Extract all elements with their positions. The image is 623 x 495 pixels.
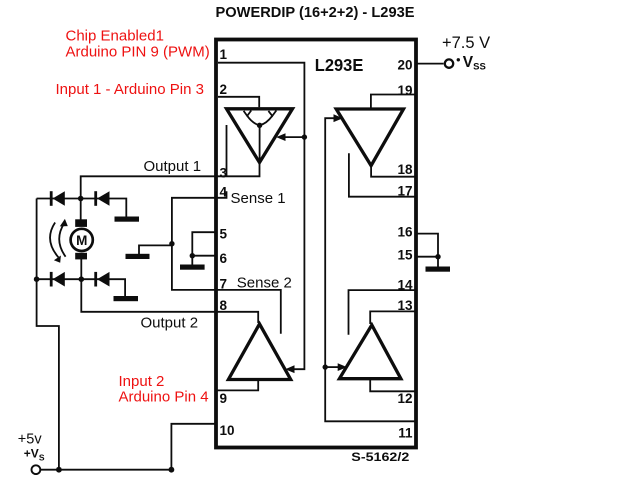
motor rotation arrow bottom bbox=[54, 256, 61, 263]
diode row 1 wire bbox=[37, 199, 127, 217]
wire input1 pin2 to A1 bbox=[218, 97, 259, 107]
junction enable1 bbox=[302, 134, 307, 139]
wire sense2 pin7 internal bbox=[216, 290, 281, 334]
svg-text:16: 16 bbox=[397, 225, 413, 240]
svg-text:5: 5 bbox=[220, 227, 228, 242]
svg-text:15: 15 bbox=[397, 248, 413, 263]
wire output2 pin8 to A2 bbox=[216, 312, 258, 323]
wire pin15 ground stem bbox=[437, 257, 439, 267]
wire input2 pin9 to A2 bbox=[216, 380, 258, 391]
wire output1 A1 to pin3 bbox=[216, 161, 260, 176]
svg-text:Chip Enabled1: Chip Enabled1 bbox=[66, 28, 164, 45]
wire output4 A4 to pin18 bbox=[371, 164, 416, 177]
svg-text:Sense 1: Sense 1 bbox=[231, 190, 286, 207]
wire pin6 ground stem bbox=[191, 256, 193, 265]
svg-text:1: 1 bbox=[220, 47, 228, 62]
wire left Vs rail bbox=[37, 199, 59, 470]
svg-text:+5v: +5v bbox=[18, 432, 43, 448]
diode D4 bbox=[94, 272, 109, 287]
svg-text:+7.5 V: +7.5 V bbox=[442, 34, 490, 52]
ground G3 sense bbox=[126, 254, 150, 259]
svg-text:20: 20 bbox=[397, 58, 412, 73]
svg-text:+VS: +VS bbox=[24, 447, 45, 463]
label +Vss bbox=[457, 58, 460, 61]
junction motor bottom bbox=[79, 276, 85, 282]
svg-text:Input 1 - Arduino Pin 3: Input 1 - Arduino Pin 3 bbox=[56, 81, 204, 98]
wire output1 external bbox=[81, 176, 216, 198]
svg-text:11: 11 bbox=[398, 426, 413, 441]
arrow into A3 bbox=[338, 363, 347, 371]
motor M body bbox=[71, 229, 93, 251]
wire sense to ground bbox=[139, 245, 172, 254]
wire bottom Vs to pin10 bbox=[41, 424, 216, 470]
junction pin10 riser bbox=[169, 467, 175, 473]
svg-text:VSS: VSS bbox=[463, 54, 486, 73]
amplifier A3 triangle bbox=[339, 325, 401, 379]
arrow into A2 bbox=[285, 365, 294, 373]
arrow into A4 bbox=[334, 114, 343, 122]
svg-text:Arduino Pin 4: Arduino Pin 4 bbox=[119, 389, 209, 406]
diode D1 bbox=[50, 191, 65, 206]
svg-text:18: 18 bbox=[397, 162, 413, 177]
svg-text:8: 8 bbox=[220, 298, 228, 313]
motor M terminal bottom bbox=[75, 253, 87, 260]
wire enable1 branch to A1 bbox=[285, 136, 304, 138]
wire motor bottom lead bbox=[80, 259, 82, 279]
junction motor top bbox=[78, 196, 84, 202]
diode D3 bbox=[50, 272, 65, 287]
junction pin6 ground bbox=[190, 253, 195, 258]
diode D2 bbox=[94, 191, 109, 206]
wire pin4 internal stub bbox=[216, 191, 227, 198]
wire enable2 rail bbox=[325, 118, 416, 421]
junction rail bottom row bbox=[34, 276, 40, 282]
motor rotation arrow top bbox=[60, 219, 68, 227]
svg-text:12: 12 bbox=[397, 391, 412, 406]
svg-text:19: 19 bbox=[397, 83, 412, 98]
motor rotation inner arc bbox=[59, 223, 65, 257]
IC U1 body L293E bbox=[216, 40, 416, 448]
svg-text:9: 9 bbox=[220, 391, 228, 406]
wire pins 5-6 external bbox=[192, 232, 216, 256]
amplifier A1 triangle bbox=[227, 109, 293, 163]
wire enable2 branch to A3 bbox=[325, 366, 338, 368]
wire input3 pin12 to A3 bbox=[370, 379, 416, 392]
svg-text:Output 2: Output 2 bbox=[141, 314, 199, 331]
svg-text:6: 6 bbox=[220, 251, 228, 266]
diode row 2 wire bbox=[37, 279, 126, 296]
wire pins 16-15 external bbox=[416, 234, 438, 257]
motor M terminal top bbox=[75, 219, 87, 227]
svg-text:L293E: L293E bbox=[315, 55, 364, 75]
junction pin15 ground bbox=[435, 254, 440, 259]
wire motor top lead bbox=[80, 199, 82, 220]
amplifier A2 triangle bbox=[228, 324, 290, 380]
junction sense bbox=[169, 241, 174, 246]
ground G1 diode D2 bbox=[115, 217, 140, 222]
junction rail at bottom wire bbox=[56, 467, 62, 473]
motor rotation outer arc bbox=[50, 223, 58, 258]
wire output2 external bbox=[81, 279, 216, 312]
amplifier A1 left winding curve bbox=[247, 116, 259, 126]
svg-text:Input 2: Input 2 bbox=[119, 373, 165, 390]
ground G2 diode D4 bbox=[114, 296, 139, 301]
svg-text:Output 1: Output 1 bbox=[144, 158, 202, 175]
wire sense4 pin17 stub bbox=[349, 153, 416, 196]
wire pin20 to Vss terminal bbox=[416, 63, 444, 65]
wire A1 feedback stub bbox=[226, 125, 228, 176]
wire sense loop pin4-pin7 external bbox=[172, 198, 216, 290]
svg-text:2: 2 bbox=[220, 82, 228, 97]
amplifier A1 center dot bbox=[257, 123, 262, 128]
svg-text:Arduino PIN 9 (PWM): Arduino PIN 9 (PWM) bbox=[66, 44, 210, 61]
svg-text:POWERDIP (16+2+2) - L293E: POWERDIP (16+2+2) - L293E bbox=[216, 5, 415, 21]
terminal Vs circle bbox=[32, 465, 41, 474]
wire enable1 rail from pin1 bbox=[218, 63, 304, 370]
ground G5 pins 16-15 bbox=[426, 267, 451, 272]
junction enable2 bbox=[323, 364, 328, 369]
amplifier A1 left arrow tip bbox=[244, 111, 252, 116]
svg-text:S-5162/2: S-5162/2 bbox=[351, 452, 409, 464]
wire input4 pin19 to A4 bbox=[371, 95, 416, 108]
wire sense3 pin14 stub bbox=[349, 290, 417, 335]
amplifier A1 right arrow tip bbox=[268, 111, 276, 116]
amplifier A1 right winding curve bbox=[260, 116, 273, 126]
ground G4 pins 5-6 bbox=[180, 265, 205, 270]
svg-text:10: 10 bbox=[220, 423, 235, 438]
terminal Vss circle bbox=[445, 59, 453, 67]
amplifier A1 output stem bbox=[259, 125, 261, 161]
wire output3 pin13 to A3 bbox=[370, 311, 416, 324]
arrow into A1 bbox=[276, 133, 285, 141]
svg-text:M: M bbox=[76, 233, 87, 248]
amplifier A4 triangle bbox=[336, 109, 403, 166]
svg-text:Sense 2: Sense 2 bbox=[237, 275, 292, 292]
